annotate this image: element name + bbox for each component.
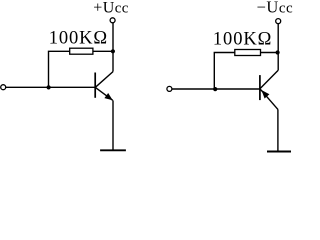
- transistor Q1 (NPN): [95, 72, 113, 101]
- terminal +Ucc: [110, 18, 115, 23]
- wire resistor left side + base feed left: [49, 51, 70, 87]
- terminal input right: [167, 86, 172, 91]
- wire collector rail right: [277, 24, 279, 71]
- transistor Q2 (PNP): [260, 70, 278, 109]
- svg-text:100KΩ: 100KΩ: [49, 29, 108, 49]
- ground right: [267, 151, 291, 153]
- ground left: [100, 149, 126, 151]
- svg-text:−Ucc: −Ucc: [257, 0, 294, 17]
- wire emitter down right: [277, 109, 279, 151]
- wire resistor right side right circuit: [261, 52, 278, 54]
- node collector-resistor junction left: [111, 49, 115, 53]
- node base junction left: [47, 85, 51, 89]
- resistor R2 body: [235, 50, 261, 56]
- terminal -Ucc: [276, 19, 281, 24]
- wire collector rail left: [112, 23, 114, 72]
- wire base left: [6, 86, 95, 88]
- wire resistor left side + base feed right: [214, 53, 235, 90]
- resistor R1 body: [70, 48, 93, 54]
- wire emitter down left: [112, 100, 114, 150]
- node base junction right: [213, 87, 217, 91]
- wire base right: [172, 88, 260, 90]
- svg-text:100KΩ: 100KΩ: [213, 30, 272, 50]
- wire resistor right side left circuit: [93, 50, 113, 52]
- terminal input left: [1, 85, 6, 90]
- svg-text:+Ucc: +Ucc: [93, 0, 129, 17]
- node collector-resistor junction right: [276, 50, 280, 54]
